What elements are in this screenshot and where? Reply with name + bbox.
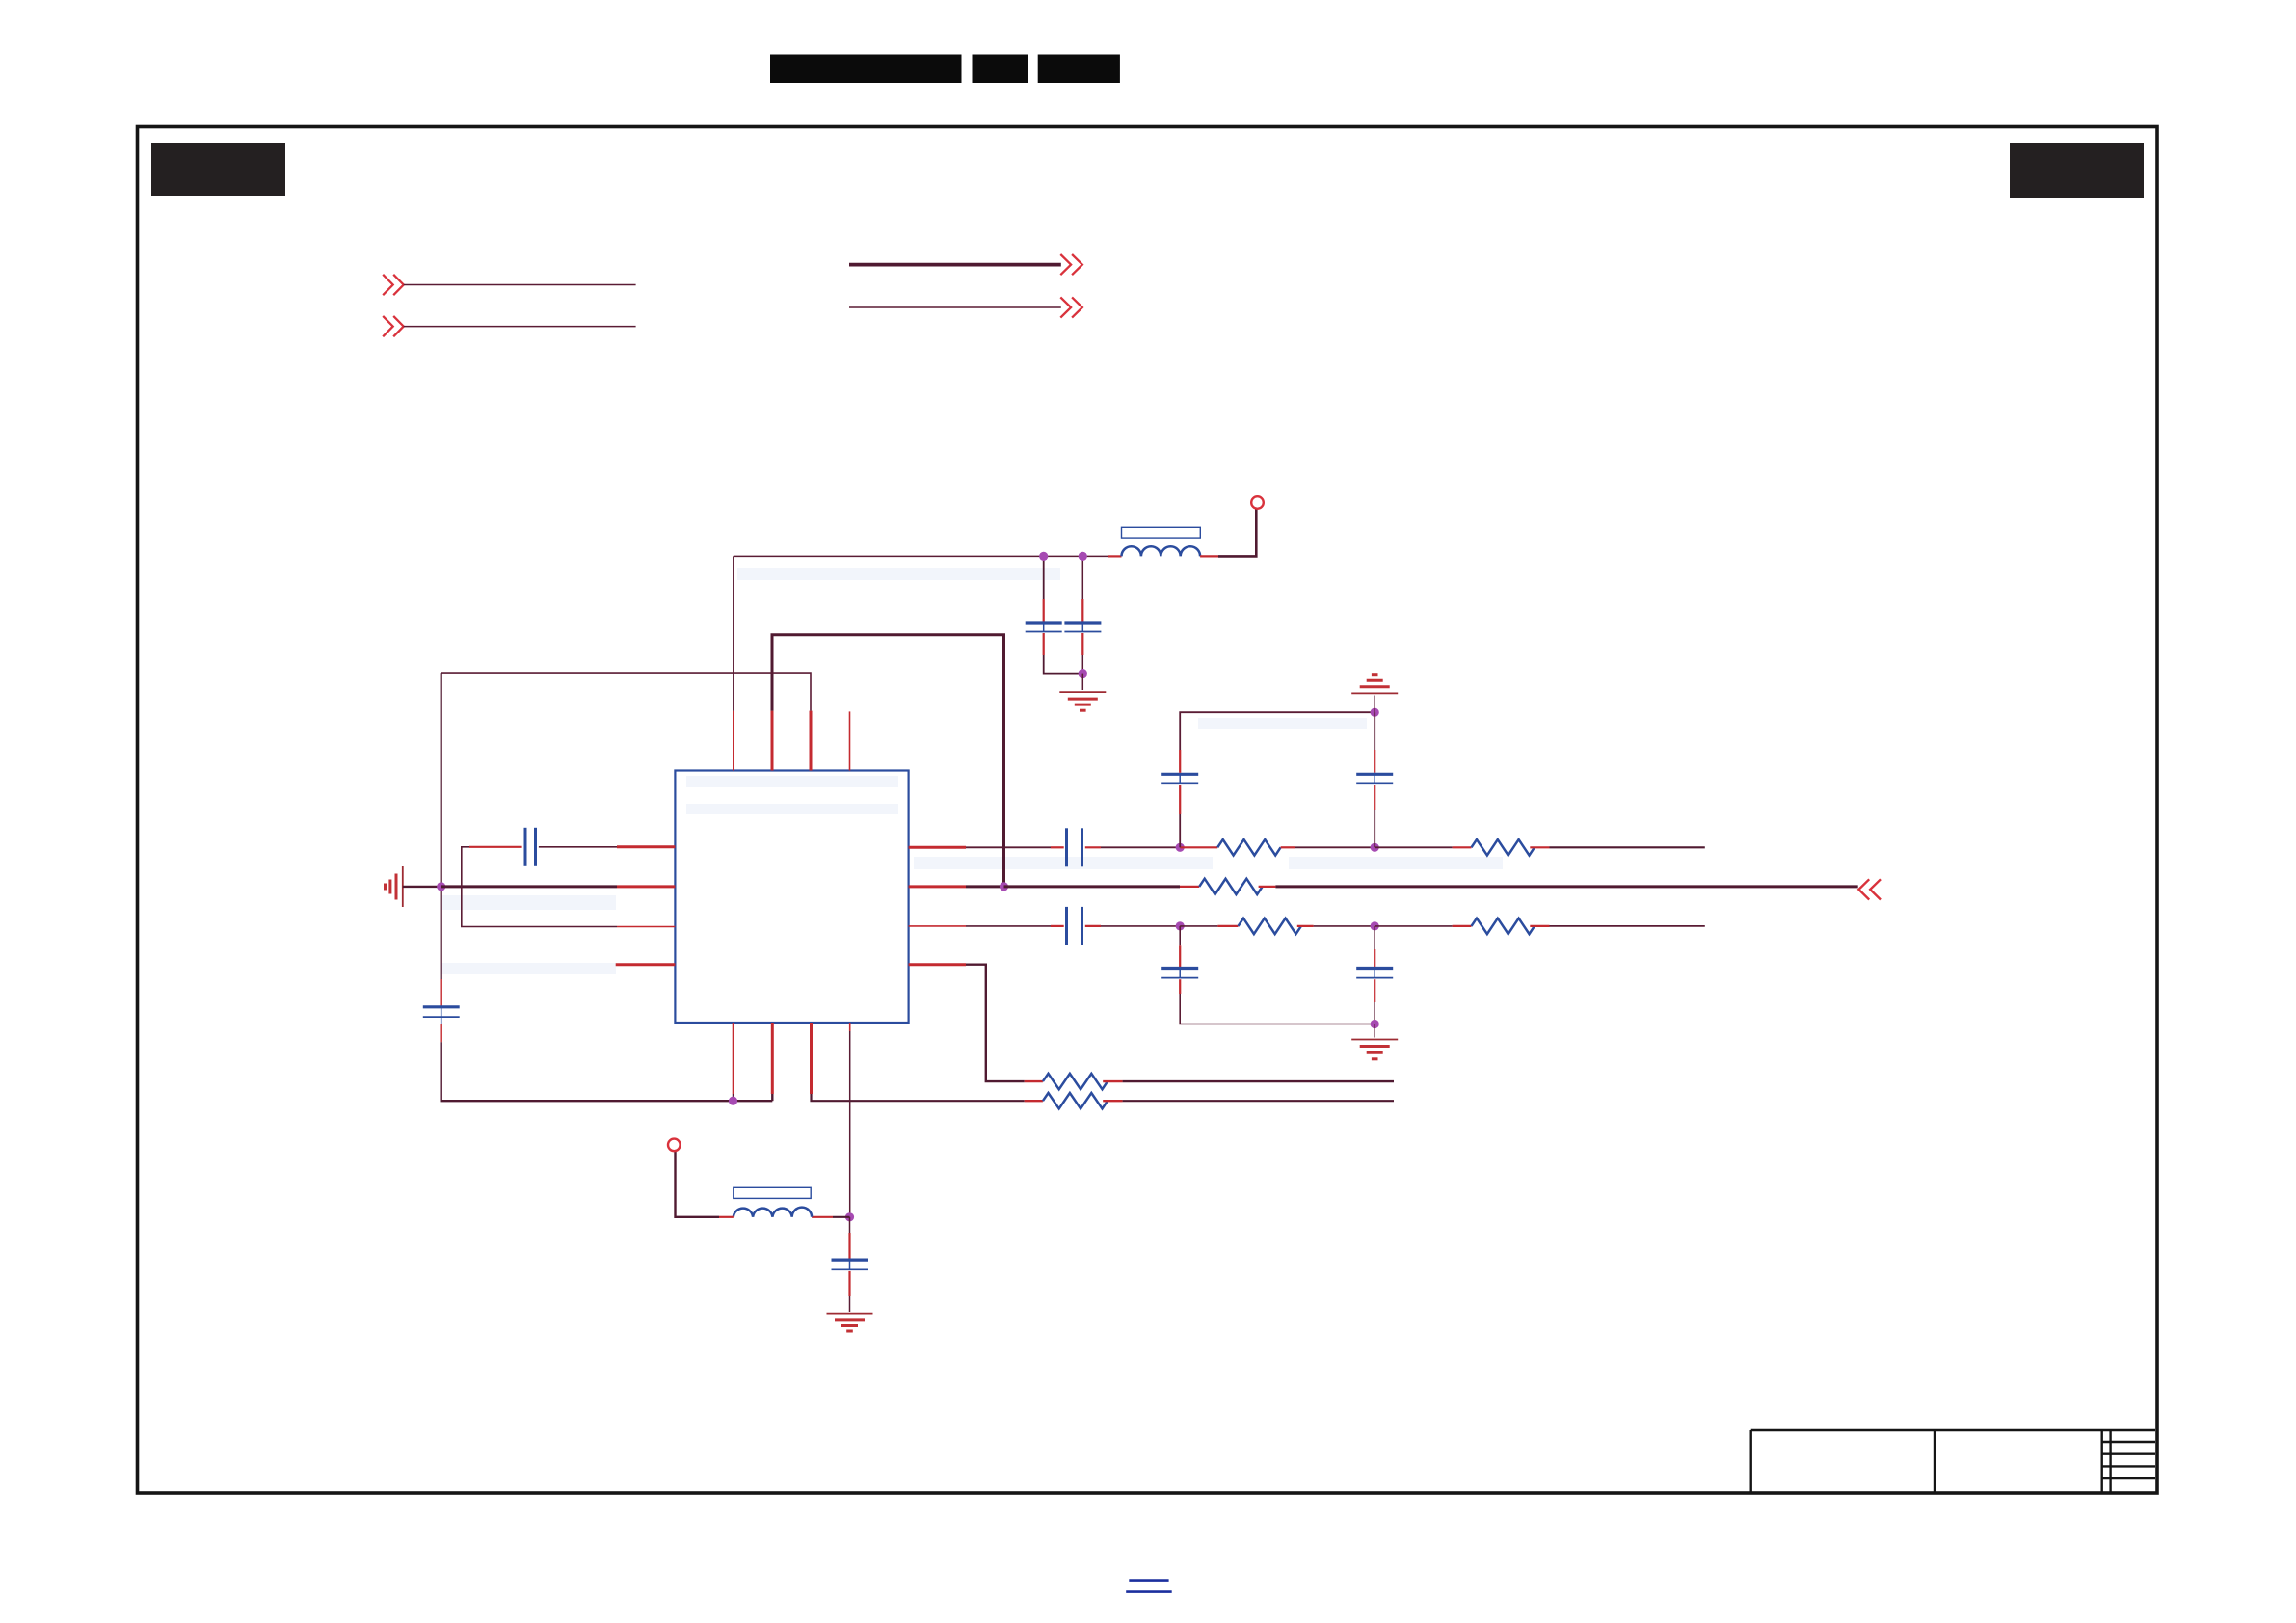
pin B2 stub [771, 1023, 774, 1094]
node A2 [1371, 843, 1379, 852]
wire red lead left of L2 [719, 1216, 734, 1218]
pin B4 stub [849, 1023, 851, 1031]
pin T1 stub [733, 711, 734, 771]
redacted title bar 2 [973, 55, 1028, 84]
wire node A2 to R3 [1375, 846, 1452, 848]
wire red lead right of R3 [1530, 846, 1549, 848]
inductor L1 [1122, 546, 1201, 556]
wire C7 to top rail corner [1180, 712, 1375, 750]
wire C5 loop to pin L3 [462, 847, 617, 927]
wire red lead right of R4 [1297, 925, 1314, 927]
wire red lead above C8 [1374, 750, 1375, 773]
wire rail red lead right of L1 [1200, 555, 1218, 557]
series capacitor C3 [1067, 828, 1083, 866]
wire node A to pin L2 [441, 885, 617, 888]
wire C11 to ground [849, 1296, 851, 1312]
wire node G2 to ground [1374, 1024, 1375, 1038]
wire red lead right of R5 [1530, 925, 1549, 927]
capacitor C11 [832, 1260, 868, 1269]
terminal circle bottom [668, 1139, 681, 1152]
wire red lead right of C3 [1085, 846, 1101, 848]
pin L4 stub [616, 963, 676, 966]
ground GND-right-bottom [1351, 1040, 1398, 1059]
pin T2 stub [771, 711, 774, 771]
wire red lead right of R2 [1281, 846, 1295, 848]
wire red lead left of R4 [1217, 925, 1238, 927]
wire pin B4 to node D [849, 1031, 851, 1217]
node D inductor junction [845, 1212, 854, 1221]
wire pin R4 bend down [966, 965, 1025, 1081]
pin L3 stub [617, 926, 675, 928]
wire node C2 down to C10 [1374, 926, 1375, 949]
wire red lead below C8 [1374, 785, 1375, 810]
title block [1751, 1430, 2155, 1492]
wire red lead left of C5 [469, 846, 522, 848]
wire R4 to node C2 [1314, 925, 1375, 927]
node left-loop bottom junction [729, 1097, 737, 1105]
wire rail to terminal [1218, 509, 1256, 556]
node G2 [1371, 1020, 1379, 1028]
wire C4 to node C1 [1101, 925, 1180, 927]
wire left loop vertical [441, 673, 442, 979]
wire red lead left of R5 [1453, 925, 1472, 927]
wire R2 to node A2 [1295, 846, 1375, 848]
wire red lead right of C4 [1085, 925, 1101, 927]
ground GND-bottom [827, 1314, 873, 1331]
capacitor C5 [525, 828, 536, 866]
input chevrons (pointing left) [1858, 879, 1881, 899]
wire C9 to bottom rail corner [1180, 994, 1375, 1024]
wire red lead below C6 [441, 1024, 442, 1042]
wire red lead right of R7 [1103, 1100, 1122, 1102]
wire red lead below C11 [848, 1271, 850, 1296]
wire pin T2 loop to node B [772, 635, 1004, 887]
wire red lead left of R2 [1180, 846, 1217, 848]
wire C8 to node A2 [1374, 810, 1375, 847]
pin T3 stub [810, 711, 813, 771]
shunt capacitor C10 [1356, 969, 1393, 978]
capacitor C6 [423, 1007, 460, 1024]
shunt capacitor C7 [1161, 774, 1198, 783]
shunt capacitor C1 [1026, 556, 1083, 673]
wire C3 to node A1 [1101, 846, 1180, 848]
wire pin L1 to C5 [539, 846, 617, 848]
ground GND-top [1059, 692, 1106, 710]
wire red lead left of R3 [1453, 846, 1472, 848]
wire rail red lead left of L1 [1108, 555, 1122, 557]
logo equals mark [1126, 1581, 1172, 1592]
wire node G to inverted ground [1374, 696, 1375, 713]
pin T4 stub [849, 711, 851, 770]
pin B1 stub [733, 1023, 734, 1094]
wire ground to node A [403, 886, 441, 888]
wire pin B2 riser [771, 1094, 773, 1101]
wire pin R3 to C4 [966, 925, 1051, 927]
wire left loop bottom [441, 1042, 773, 1101]
wire junction to ground [1081, 674, 1083, 690]
wire red lead left of C4 [1051, 925, 1064, 927]
wire R6 to open end [1123, 1080, 1394, 1082]
shunt capacitor C8 [1356, 774, 1393, 783]
resistor R7 [1043, 1093, 1108, 1108]
wire pin B3 bend right [812, 1094, 1025, 1101]
wire C10 to node G2 [1374, 1002, 1375, 1024]
ground GND-left (sideways) [386, 866, 403, 907]
wire red lead below C10 [1374, 979, 1375, 1002]
redacted title bar 3 [1038, 55, 1120, 84]
resistor R4 [1239, 918, 1301, 934]
wire VCC rail [734, 555, 1108, 557]
wire pin B1 to node [733, 1094, 734, 1101]
node C2 [1371, 921, 1379, 930]
resistor R6 [1043, 1074, 1108, 1089]
pin R2 stub [909, 885, 966, 888]
wire red lead right of R1 [1259, 886, 1276, 888]
resistor R2 [1217, 839, 1280, 855]
pin B3 stub [810, 1023, 813, 1094]
node rail dot 1 [1039, 552, 1048, 561]
pin L1 stub [617, 845, 675, 848]
wire R3 to open end [1550, 846, 1705, 848]
wire R1 to input arrow [1275, 885, 1857, 888]
wire node C1 to R4 [1180, 925, 1217, 927]
wire node A1 up to C7 [1179, 814, 1181, 847]
inductor L2 [734, 1208, 812, 1217]
sheet border frame [138, 127, 2158, 1494]
node A1 [1176, 843, 1185, 852]
redacted block top-left [151, 143, 285, 196]
wire red lead left of R1 [1180, 886, 1199, 888]
wire R7 to open end [1123, 1100, 1394, 1102]
wire red lead below C7 [1179, 785, 1181, 814]
terminal circle VCC [1251, 496, 1264, 509]
label box of L2 [734, 1187, 811, 1198]
node B [1000, 882, 1008, 891]
wire red lead right of L2 [812, 1216, 833, 1218]
resistor R1 [1199, 879, 1262, 894]
shunt capacitor C9 [1161, 969, 1198, 978]
wire red lead left of R7 [1025, 1100, 1043, 1102]
wire node D down to C11 [849, 1217, 851, 1233]
wire pin R1 to C3 [966, 846, 1051, 848]
label box of L1 [1122, 527, 1201, 538]
ground GND-right-top (inverted) [1351, 675, 1398, 694]
node C1 [1176, 921, 1185, 930]
wire red lead above C7 [1179, 750, 1181, 773]
wire red lead left of R6 [1025, 1080, 1043, 1082]
redacted block top-right [2010, 143, 2144, 198]
wire pin T3 to left loop [441, 673, 811, 711]
wire node C1 down to C9 [1179, 926, 1181, 945]
wire red lead above C9 [1179, 945, 1181, 967]
wire red lead left of C3 [1051, 846, 1064, 848]
node rail dot 2 [1079, 552, 1087, 561]
wire node C2 to R5 [1375, 925, 1452, 927]
node caps junction [1079, 669, 1087, 678]
wire L2 to terminal [676, 1151, 720, 1216]
wire red lead above C11 [848, 1233, 850, 1259]
wire red lead right of R6 [1103, 1080, 1122, 1082]
wire red lead below C9 [1179, 979, 1181, 994]
resistor R3 [1472, 839, 1535, 855]
resistor R5 [1472, 918, 1535, 934]
pin R3 stub [909, 925, 966, 927]
legend arrow 1 (left, pointing right) [383, 275, 635, 295]
redacted title bar 1 [770, 55, 962, 84]
pin R4 stub [909, 963, 966, 966]
ghost redacted text strips [441, 568, 1503, 974]
wire node G down to C8 [1374, 712, 1375, 750]
wire pin T1 to VCC rail [733, 556, 734, 710]
wire node B to R1 [1004, 885, 1181, 888]
wire red lead above C6 [441, 979, 442, 1006]
wire pin R2 to node B [966, 885, 1004, 888]
pin L2 stub [617, 885, 675, 888]
IC U1 [675, 771, 908, 1024]
node G top [1371, 708, 1379, 717]
wire red lead above C10 [1374, 949, 1375, 967]
pin R1 stub [909, 846, 966, 849]
legend arrow 2 (left, pointing right) [383, 316, 635, 336]
series capacitor C4 [1067, 907, 1083, 945]
legend arrow 3 (right, thick line, pointing right) [849, 254, 1082, 275]
wire R5 to open end [1550, 925, 1705, 927]
wire node D to L2 [833, 1216, 850, 1218]
shunt capacitor C2 [1064, 556, 1101, 673]
node A ground junction [437, 882, 445, 891]
legend arrow 4 (right, thin line, pointing right) [849, 297, 1082, 317]
